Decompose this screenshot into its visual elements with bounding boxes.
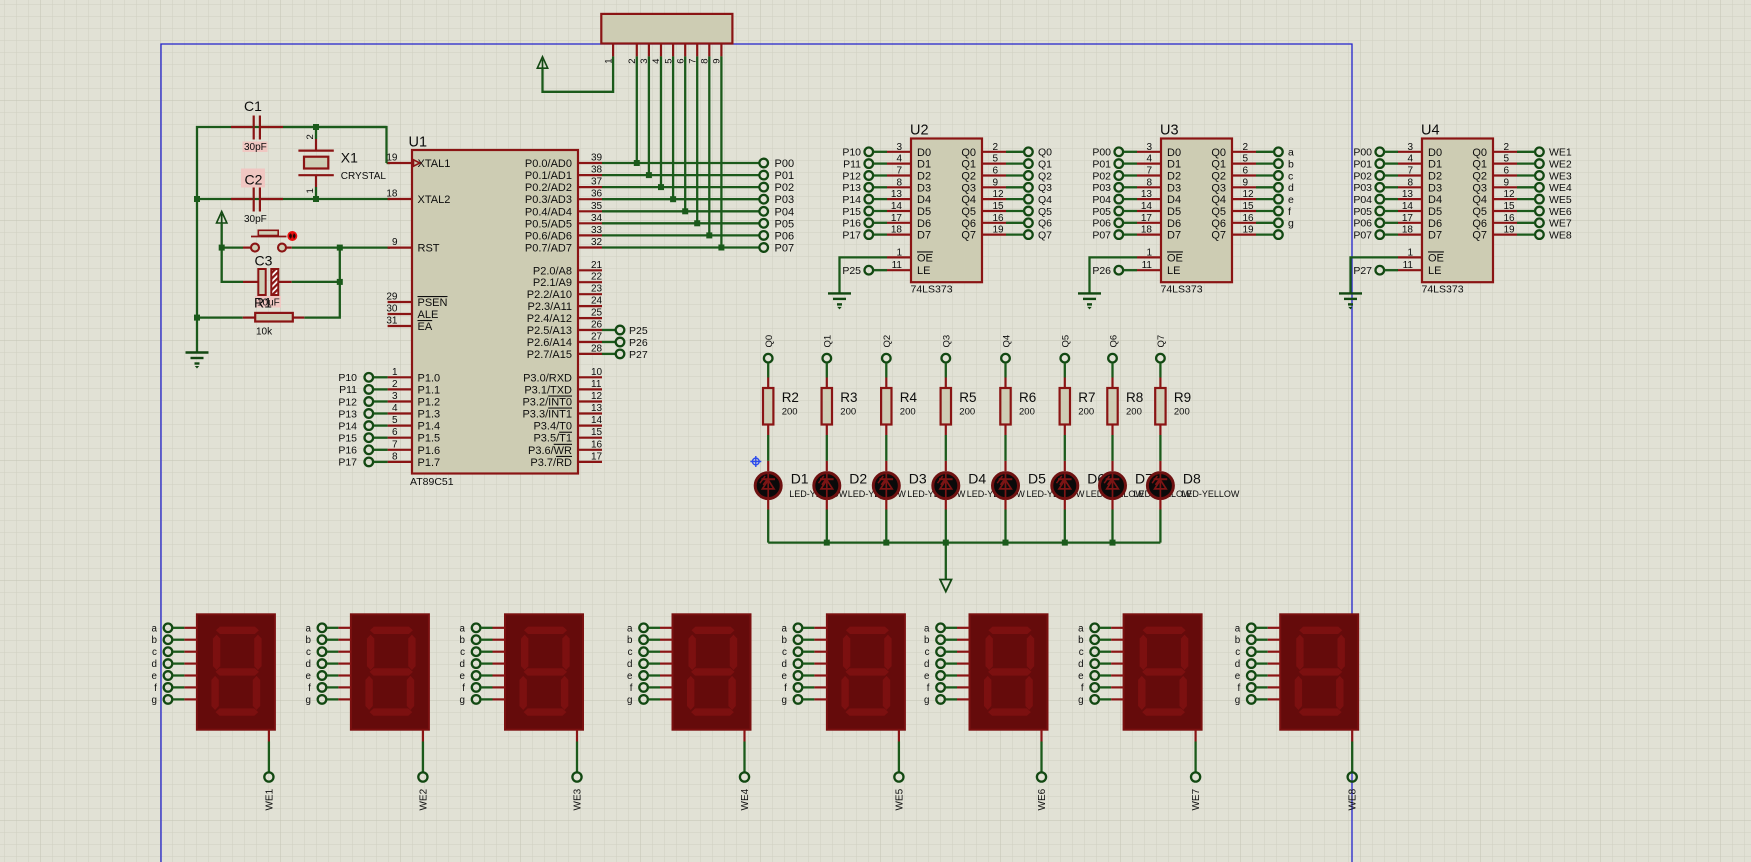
U1 pin 6 P1.5	[388, 427, 441, 445]
display 5 segment pin a	[781, 623, 826, 634]
svg-text:8: 8	[896, 177, 902, 188]
svg-text:e: e	[781, 671, 787, 682]
svg-text:a: a	[627, 623, 633, 634]
U1 pin 8 P1.7	[388, 451, 441, 469]
U1 pin 25 P2.4	[527, 308, 603, 326]
U4 pin 7 D2	[1398, 166, 1442, 183]
display 6 segment pin d	[924, 659, 969, 670]
U2 pin 15 Q5	[961, 201, 1006, 218]
svg-text:d: d	[781, 659, 786, 670]
svg-text:6: 6	[1504, 166, 1510, 177]
svg-text:16: 16	[1504, 213, 1516, 224]
wire connector pin 8 to P0.6 net	[706, 56, 712, 238]
wire R8 to D7	[1111, 424, 1113, 471]
U1 pin 28 P2.7	[527, 343, 603, 361]
display 5 segment pin e	[781, 671, 826, 682]
svg-text:ALE: ALE	[418, 309, 439, 321]
svg-text:D7: D7	[1167, 230, 1181, 242]
svg-text:38: 38	[591, 165, 603, 176]
svg-text:15: 15	[591, 427, 603, 438]
svg-text:P03: P03	[775, 194, 795, 206]
wire Q6 to R8	[1111, 363, 1113, 388]
svg-text:P16: P16	[842, 218, 861, 230]
wire C3 right branch	[292, 248, 343, 318]
U4 LE terminal P27	[1353, 265, 1398, 277]
svg-text:WE4: WE4	[740, 788, 751, 810]
U3 left terminal P04	[1092, 194, 1137, 206]
LED D3 labels	[907, 471, 966, 500]
svg-text:R1: R1	[254, 295, 272, 311]
svg-text:WE2: WE2	[1549, 158, 1572, 170]
wire D7 to bus	[1111, 499, 1113, 543]
display 8 segment pin e	[1235, 671, 1280, 682]
U3 left terminal P05	[1092, 206, 1137, 218]
U4 left terminal P00	[1353, 147, 1398, 159]
svg-text:C2: C2	[245, 172, 263, 188]
svg-text:Q1: Q1	[823, 335, 834, 348]
svg-text:Q5: Q5	[1038, 206, 1052, 218]
display 1 segment pin f	[154, 683, 197, 694]
U2 right terminal Q6	[1006, 218, 1052, 230]
svg-text:P01: P01	[1353, 158, 1372, 170]
svg-text:g: g	[1078, 695, 1083, 706]
terminal P05	[759, 218, 794, 230]
U3 left terminal P03	[1092, 182, 1137, 194]
svg-text:4: 4	[1146, 154, 1152, 165]
svg-text:P04: P04	[1353, 194, 1372, 206]
U2 pin 4 D1	[887, 154, 931, 171]
svg-text:Q0: Q0	[1038, 147, 1052, 159]
U4 pin 16 Q6	[1472, 213, 1517, 230]
7-segment display 1 body	[197, 614, 275, 729]
display 8 common pin wire	[1351, 730, 1353, 773]
terminal Q5 (resistor column)	[1061, 335, 1072, 363]
wire R3 to D2	[826, 424, 828, 471]
svg-text:8: 8	[392, 451, 398, 462]
svg-text:c: c	[782, 647, 787, 658]
svg-text:Q5: Q5	[1211, 206, 1226, 218]
svg-text:R9: R9	[1174, 390, 1191, 405]
svg-text:P00: P00	[775, 158, 795, 170]
svg-text:30pF: 30pF	[244, 214, 267, 225]
svg-text:2: 2	[1243, 142, 1249, 153]
U2 pin 18 D7	[887, 225, 931, 242]
svg-text:WE2: WE2	[418, 788, 429, 810]
U2 pin 14 D5	[887, 201, 931, 218]
U1 pin 2 P1.1	[388, 379, 441, 397]
svg-text:2: 2	[392, 379, 398, 390]
wire R7 to D6	[1064, 424, 1066, 471]
wire Q1 to R3	[826, 363, 828, 388]
display 2 segment pin g	[305, 695, 350, 706]
svg-text:Q2: Q2	[1038, 170, 1052, 182]
display 8 segment pin d	[1235, 659, 1280, 670]
svg-text:1: 1	[392, 367, 398, 378]
U1 pin 16 P3.6	[528, 439, 603, 457]
svg-text:5: 5	[392, 415, 398, 426]
svg-text:P1.4: P1.4	[418, 421, 441, 433]
svg-text:D1: D1	[1428, 159, 1442, 171]
U3 pin 4 D1	[1137, 154, 1181, 171]
svg-text:Q6: Q6	[1108, 335, 1119, 348]
svg-text:P3.5/T1: P3.5/T1	[533, 433, 572, 445]
U3 right terminal d	[1256, 182, 1294, 194]
svg-text:5: 5	[993, 154, 999, 165]
display 5 segment pin f	[784, 683, 827, 694]
svg-text:CRYSTAL: CRYSTAL	[341, 171, 387, 182]
svg-text:c: c	[628, 647, 633, 658]
svg-text:P0.7/AD7: P0.7/AD7	[525, 243, 572, 255]
terminal P02	[759, 182, 794, 194]
bus ground arrow	[940, 543, 951, 592]
U2 OE wire to ground	[840, 257, 888, 293]
U1 pin 29 PSEN	[386, 292, 447, 310]
svg-text:e: e	[305, 671, 311, 682]
svg-text:D4: D4	[917, 194, 931, 206]
display 4 segment pin b	[627, 635, 672, 646]
U3 pin 2 Q0	[1211, 142, 1256, 159]
svg-text:18: 18	[1402, 225, 1414, 236]
svg-text:R6: R6	[1019, 390, 1036, 405]
U2 left terminal P11	[843, 158, 887, 170]
svg-text:e: e	[1235, 671, 1241, 682]
wire Q4 to R6	[1004, 363, 1006, 388]
connector pin 8 stub	[700, 44, 711, 64]
svg-text:12: 12	[1243, 189, 1255, 200]
svg-text:7: 7	[392, 439, 398, 450]
svg-text:c: c	[1288, 170, 1293, 182]
svg-text:16: 16	[1243, 213, 1255, 224]
capacitor C3	[243, 253, 292, 296]
svg-text:13: 13	[1141, 189, 1153, 200]
svg-text:4: 4	[1407, 154, 1413, 165]
display 6 segment pin c	[925, 647, 970, 658]
U1 pin 19 XTAL1	[386, 153, 450, 171]
svg-text:Q6: Q6	[1472, 218, 1487, 230]
U4 pin 15 Q5	[1472, 201, 1517, 218]
svg-text:Q6: Q6	[1211, 218, 1226, 230]
terminal P06	[759, 230, 794, 242]
svg-text:8: 8	[1407, 177, 1413, 188]
svg-text:P1.3: P1.3	[418, 409, 441, 421]
U2 pin 16 Q6	[961, 213, 1006, 230]
7-segment display 7 body	[1124, 614, 1202, 729]
svg-text:200: 200	[900, 407, 916, 418]
svg-text:13: 13	[1402, 189, 1414, 200]
svg-text:Q3: Q3	[1472, 182, 1487, 194]
wire connector pin 3 to P0.1 net	[646, 56, 652, 178]
U1 pin 31 EA	[386, 316, 432, 334]
svg-text:P04: P04	[1092, 194, 1111, 206]
svg-text:g: g	[151, 695, 156, 706]
display 5 segment pin g	[781, 695, 826, 706]
U2 ground	[828, 293, 851, 309]
svg-text:D0: D0	[1428, 147, 1442, 159]
U4 right terminal WE3	[1517, 170, 1572, 182]
svg-text:P10: P10	[842, 147, 861, 159]
display 4 common pin wire	[743, 730, 745, 773]
U3 pin 13 D4	[1137, 189, 1181, 206]
svg-text:P0.2/AD2: P0.2/AD2	[525, 182, 572, 194]
U3 pin 12 Q4	[1211, 189, 1256, 206]
svg-text:P0.1/AD1: P0.1/AD1	[525, 170, 572, 182]
wire D4 to bus	[945, 499, 947, 543]
label C2	[241, 169, 265, 188]
svg-text:2: 2	[1504, 142, 1510, 153]
connector pin 6 stub	[675, 44, 686, 64]
svg-text:P13: P13	[338, 408, 357, 420]
svg-text:Q3: Q3	[942, 335, 953, 348]
svg-text:Q4: Q4	[1001, 335, 1012, 348]
terminal P16	[338, 445, 387, 457]
wire left rail (C1/C2/R1 common)	[194, 127, 387, 352]
U4 left terminal P07	[1353, 229, 1398, 241]
U2 pin 8 D3	[887, 177, 931, 194]
U1 pin 7 P1.6	[388, 439, 441, 457]
display 1 segment pin d	[151, 659, 196, 670]
svg-text:18: 18	[386, 189, 398, 200]
display 2 segment pin c	[306, 647, 351, 658]
svg-text:P3.6/WR: P3.6/WR	[528, 445, 572, 457]
svg-text:P01: P01	[775, 170, 795, 182]
display 6 segment pin a	[924, 623, 969, 634]
svg-text:LED-YELLOW: LED-YELLOW	[1181, 489, 1240, 499]
U4 pin 19 Q7	[1472, 225, 1517, 242]
svg-text:P0.3/AD3: P0.3/AD3	[525, 194, 572, 206]
U4 ground	[1339, 293, 1362, 309]
svg-text:Q7: Q7	[1038, 229, 1052, 241]
U4 pin 11 LE	[1398, 260, 1441, 277]
label C2 value 30pF	[244, 214, 267, 225]
svg-text:d: d	[460, 659, 465, 670]
svg-text:c: c	[1079, 647, 1084, 658]
svg-text:U4: U4	[1421, 123, 1440, 139]
wire R6 to D5	[1004, 424, 1006, 471]
svg-text:17: 17	[591, 451, 603, 462]
LED D8	[1147, 473, 1173, 499]
svg-text:11: 11	[1403, 260, 1414, 271]
U4 right terminal WE5	[1517, 194, 1572, 206]
svg-text:R5: R5	[959, 390, 976, 405]
svg-text:Q0: Q0	[1472, 147, 1487, 159]
svg-text:11: 11	[1142, 260, 1153, 271]
svg-text:c: c	[1235, 647, 1240, 658]
terminal P15	[338, 433, 387, 445]
svg-text:b: b	[460, 635, 466, 646]
U3 pin 15 Q5	[1211, 201, 1256, 218]
svg-text:XTAL1: XTAL1	[418, 158, 451, 170]
U2 right terminal Q0	[1006, 147, 1052, 159]
wire connector pin 6 to P0.4 net	[682, 56, 688, 214]
U1 pin 36 P0.3	[525, 189, 603, 207]
svg-text:P1.1: P1.1	[418, 384, 441, 396]
svg-text:37: 37	[591, 177, 603, 188]
U3 ground	[1078, 293, 1101, 309]
terminal Q6 (resistor column)	[1108, 335, 1119, 363]
svg-text:g: g	[1288, 218, 1294, 230]
svg-text:f: f	[1237, 683, 1240, 694]
svg-text:200: 200	[782, 407, 798, 418]
svg-text:16: 16	[591, 439, 603, 450]
terminal WE8	[1348, 772, 1359, 810]
svg-text:D5: D5	[1028, 471, 1046, 487]
terminal P04	[759, 206, 794, 218]
svg-text:a: a	[1288, 147, 1294, 159]
svg-text:P2.0/A8: P2.0/A8	[533, 265, 572, 277]
svg-text:17: 17	[891, 213, 903, 224]
svg-text:g: g	[460, 695, 465, 706]
svg-text:LE: LE	[1167, 265, 1180, 277]
latch U4 74LS373 body	[1421, 123, 1493, 296]
U3 OE wire to ground	[1090, 257, 1138, 293]
LED D6	[1052, 473, 1078, 499]
svg-text:P2.7/A15: P2.7/A15	[527, 349, 572, 361]
U1 pin 9 RST	[388, 237, 440, 255]
U4 right terminal WE6	[1517, 206, 1572, 218]
svg-text:P1.5: P1.5	[418, 433, 441, 445]
svg-text:EA: EA	[418, 321, 433, 333]
svg-text:P06: P06	[1353, 218, 1372, 230]
svg-text:12: 12	[993, 189, 1005, 200]
U3 pin 18 D7	[1137, 225, 1181, 242]
svg-text:P10: P10	[338, 372, 357, 384]
U2 LE terminal P25	[842, 265, 887, 277]
svg-text:Q2: Q2	[1211, 171, 1226, 183]
terminal P03	[759, 194, 794, 206]
connector pin 9 stub	[712, 44, 723, 64]
U1 pin 10 P3.0	[523, 367, 602, 385]
wire Q7 to R9	[1159, 363, 1161, 388]
svg-text:Q3: Q3	[1211, 182, 1226, 194]
svg-text:WE7: WE7	[1191, 788, 1202, 810]
svg-text:18: 18	[1141, 225, 1153, 236]
svg-text:b: b	[924, 635, 930, 646]
wire connector pin 2 to P0.0 net	[634, 56, 640, 166]
svg-text:P05: P05	[1353, 206, 1372, 218]
resistor R9 200	[1155, 388, 1191, 425]
svg-text:D1: D1	[1167, 159, 1181, 171]
U1 pin 1 P1.0	[388, 367, 441, 385]
svg-text:P07: P07	[1353, 229, 1372, 241]
svg-text:PSEN: PSEN	[418, 297, 448, 309]
svg-text:P27: P27	[629, 349, 648, 361]
svg-text:D6: D6	[917, 218, 931, 230]
svg-text:D3: D3	[1428, 182, 1442, 194]
display 3 segment pin f	[462, 683, 505, 694]
svg-text:P15: P15	[842, 206, 861, 218]
svg-text:P14: P14	[842, 194, 861, 206]
wire P0.6 to terminal	[602, 234, 759, 236]
display 3 common pin wire	[576, 730, 578, 773]
origin marker	[750, 456, 761, 467]
svg-text:P03: P03	[1092, 182, 1111, 194]
svg-text:26: 26	[591, 320, 603, 331]
svg-text:g: g	[627, 695, 632, 706]
display 4 segment pin c	[628, 647, 673, 658]
display 5 segment pin b	[781, 635, 826, 646]
display 4 segment pin g	[627, 695, 672, 706]
U4 left terminal P06	[1353, 218, 1398, 230]
wire P0.7 to terminal	[602, 246, 759, 248]
U4 left terminal P03	[1353, 182, 1398, 194]
display 1 segment pin b	[151, 635, 196, 646]
U1 pin 4 P1.3	[388, 403, 441, 421]
power symbol (reset)	[217, 212, 227, 248]
display 2 segment pin e	[305, 671, 350, 682]
svg-text:9: 9	[1504, 177, 1510, 188]
display 4 segment pin d	[627, 659, 672, 670]
display 2 segment pin d	[305, 659, 350, 670]
U1 pin 21 P2.0	[533, 260, 603, 278]
wire crystal pin2 to C1 row	[313, 124, 319, 139]
svg-text:14: 14	[1141, 201, 1153, 212]
U1 pin 37 P0.2	[525, 177, 603, 195]
svg-text:P11: P11	[339, 384, 357, 396]
svg-text:6: 6	[392, 427, 398, 438]
svg-text:200: 200	[1174, 407, 1190, 418]
resistor R5 200	[941, 388, 977, 425]
7-segment display 2 body	[351, 614, 429, 729]
svg-text:4: 4	[896, 154, 902, 165]
resistor R8 200	[1107, 388, 1143, 425]
terminal P17	[338, 457, 387, 469]
svg-text:P25: P25	[842, 265, 861, 277]
svg-text:30pF: 30pF	[244, 142, 267, 153]
svg-text:Q1: Q1	[961, 159, 976, 171]
svg-text:e: e	[460, 671, 466, 682]
svg-text:P1.2: P1.2	[418, 397, 441, 409]
svg-text:P1.0: P1.0	[418, 372, 441, 384]
U1 pin 30 ALE	[386, 304, 438, 322]
svg-text:P26: P26	[629, 337, 648, 349]
svg-text:R4: R4	[900, 390, 918, 405]
terminal P01	[759, 170, 794, 182]
svg-text:25: 25	[591, 308, 603, 319]
terminal WE6	[1037, 772, 1048, 810]
U2 pin 3 D0	[887, 142, 931, 159]
svg-text:b: b	[627, 635, 633, 646]
connector pin 1 stub	[603, 44, 614, 64]
resistor R2 200	[763, 388, 799, 425]
resistor R7 200	[1060, 388, 1096, 425]
U3 pin 8 D3	[1137, 177, 1181, 194]
svg-text:200: 200	[1078, 407, 1094, 418]
svg-text:D2: D2	[917, 171, 931, 183]
svg-text:P06: P06	[775, 230, 795, 242]
U3 pin 19 Q7	[1211, 225, 1256, 242]
U4 pin 5 Q1	[1472, 154, 1517, 171]
U2 right terminal Q2	[1006, 170, 1052, 182]
svg-text:D7: D7	[1428, 230, 1442, 242]
svg-text:4: 4	[392, 403, 398, 414]
svg-text:Q7: Q7	[1472, 230, 1487, 242]
svg-text:8: 8	[1146, 177, 1152, 188]
U2 pin 5 Q1	[961, 154, 1006, 171]
svg-text:D0: D0	[917, 147, 931, 159]
display 5 segment pin d	[781, 659, 826, 670]
svg-text:32: 32	[591, 237, 603, 248]
svg-text:P14: P14	[338, 420, 357, 432]
U2 pin 6 Q2	[961, 166, 1006, 183]
connector J1 (9-pin header)	[601, 14, 732, 44]
svg-text:27: 27	[591, 332, 603, 343]
svg-text:d: d	[924, 659, 929, 670]
U2 pin 11 LE	[887, 260, 930, 277]
wire connector pin 5 to P0.3 net	[670, 56, 676, 202]
svg-text:P0.5/AD5: P0.5/AD5	[525, 218, 572, 230]
svg-text:200: 200	[1019, 407, 1035, 418]
svg-text:21: 21	[591, 260, 603, 271]
